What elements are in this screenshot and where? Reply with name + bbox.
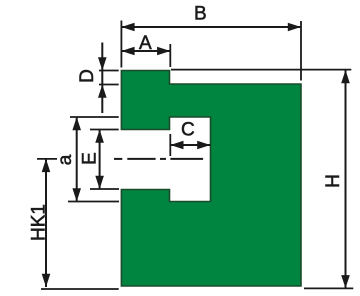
svg-text:C: C (181, 120, 195, 141)
extension line D top (y=70.5) (99, 70, 119, 72)
svg-text:A: A (139, 33, 152, 54)
extension line D bottom (y=84.5) (99, 84, 119, 86)
arrow A left (121, 47, 134, 56)
arrow a top (72, 117, 81, 130)
arrow E bottom (95, 176, 104, 189)
dimension line a (vertical) (76, 117, 78, 202)
svg-text:E: E (80, 152, 101, 165)
arrow HK1 bottom (42, 274, 51, 287)
extension line E top (y=129.5) (90, 129, 119, 131)
dimension line C (170, 144, 210, 146)
extension line right of B (x=301) (300, 21, 302, 81)
arrowheads (42, 23, 350, 289)
dimension line D (vertical) (101, 43, 103, 114)
dimension line H (vertical) (345, 70, 347, 288)
svg-text:HK1: HK1 (29, 204, 50, 241)
extension line H bottom (y=288.4) (304, 287, 353, 289)
arrow H bottom (341, 275, 350, 288)
dimension line E (vertical) (99, 130, 101, 190)
extension line left of B/A (x=121.4) (120, 21, 122, 68)
extension line bottom left (y=289) (41, 288, 119, 290)
arrow C right (197, 141, 210, 150)
extension line a top (y=117) (70, 116, 119, 118)
profile body (green T-slot cross-section) (121, 71, 301, 287)
arrow C left (170, 141, 183, 150)
dimension line B (121, 26, 301, 28)
arrow H top (341, 70, 350, 83)
arrow HK1 top (42, 159, 51, 172)
arrow D bottom (outside, points up to y=84.5) (98, 85, 107, 98)
svg-text:H: H (323, 174, 344, 188)
svg-text:a: a (55, 154, 76, 165)
arrow B right (288, 23, 301, 32)
centerline (dash-dot) of slot (114, 158, 203, 160)
svg-text:B: B (194, 4, 207, 25)
extension line right of A (x=170.3) (169, 44, 171, 67)
extension line HK1 top (y=158.9) (37, 158, 57, 160)
extension line E bottom (y=189) (90, 188, 119, 190)
arrow B left (121, 23, 134, 32)
arrow E top (95, 130, 104, 143)
dimension line HK1 (vertical) (45, 159, 47, 287)
dimension line A (121, 50, 170, 52)
extension line a bottom (y=201.5) (68, 201, 119, 203)
arrow a bottom (72, 188, 81, 201)
svg-text:D: D (77, 69, 98, 83)
extension line H top (y=69.6) (171, 69, 351, 71)
extension tick left of C (169, 134, 171, 156)
arrow A right (157, 47, 170, 56)
arrow D top (outside, points down to y=70.5) (98, 57, 107, 70)
